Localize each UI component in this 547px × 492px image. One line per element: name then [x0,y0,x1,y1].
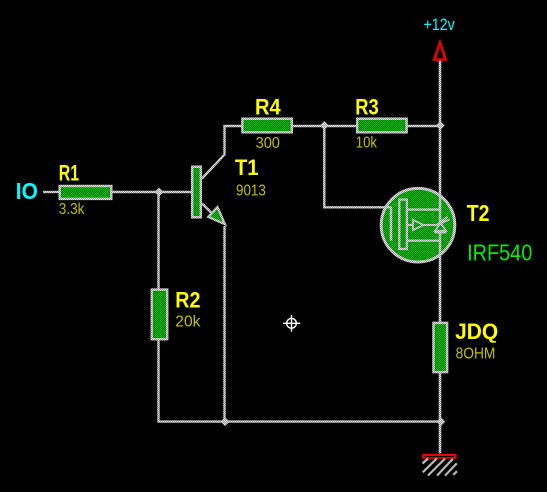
cursor crosshair [283,315,300,332]
svg-text:T2: T2 [467,200,490,226]
node R4-R3 junction [320,121,329,130]
transistor T2 gate bar [390,207,393,240]
resistor R3 [357,119,406,133]
svg-text:R2: R2 [175,287,200,312]
wire emitter down [223,226,225,422]
svg-text:R1: R1 [59,161,79,186]
resistor R2 [152,290,167,340]
svg-text:8OHM: 8OHM [456,346,496,363]
wire gate net [324,126,380,207]
resistor R4 [242,119,291,133]
node supply junction [436,121,445,130]
svg-text:IO: IO [16,178,38,204]
wire R3 to supply rail [408,125,441,127]
resistor JDQ [434,323,448,372]
svg-text:20k: 20k [175,313,201,330]
svg-text:JDQ: JDQ [455,319,498,344]
svg-text:IRF540: IRF540 [467,240,532,266]
transistor T2 channel bar [399,200,407,249]
node bottom right junction [436,417,445,426]
wire gate lead inside circle [378,206,392,208]
node emitter bottom junction [221,417,230,426]
transistor T2 substrate arrow [407,220,437,230]
power +12v symbol [433,39,448,61]
wire R4 to R3 [293,125,357,127]
transistor T2 IRF540 body circle [381,188,455,262]
svg-text:10k: 10k [356,135,378,152]
wire R1 to T1 base [112,191,192,193]
svg-text:300: 300 [256,135,280,152]
wire bottom bus [158,420,442,422]
transistor T1 emitter arrow [208,207,225,224]
transistor T1 base bar [192,167,201,218]
svg-text:9013: 9013 [236,182,266,199]
wire main vertical rail +12v to ground [439,61,442,454]
svg-text:3.3k: 3.3k [59,201,85,218]
resistor R1 [60,186,112,199]
transistor T1 emitter line [202,204,221,223]
ground hatch [423,458,458,475]
svg-text:T1: T1 [235,155,259,180]
wire IO lead [43,191,59,193]
transistor T2 body diode [435,217,450,233]
svg-text:R3: R3 [355,95,378,120]
wire R2 bottom down [157,340,159,422]
transistor T2 source line [407,239,441,241]
transistor T2 drain line [407,208,441,210]
wire junction down to R2 [157,192,159,290]
ground bar [422,454,457,459]
wire collector up to R4 [202,126,242,179]
svg-text:+12v: +12v [424,16,456,34]
svg-text:R4: R4 [255,95,281,120]
node base junction [155,188,164,197]
